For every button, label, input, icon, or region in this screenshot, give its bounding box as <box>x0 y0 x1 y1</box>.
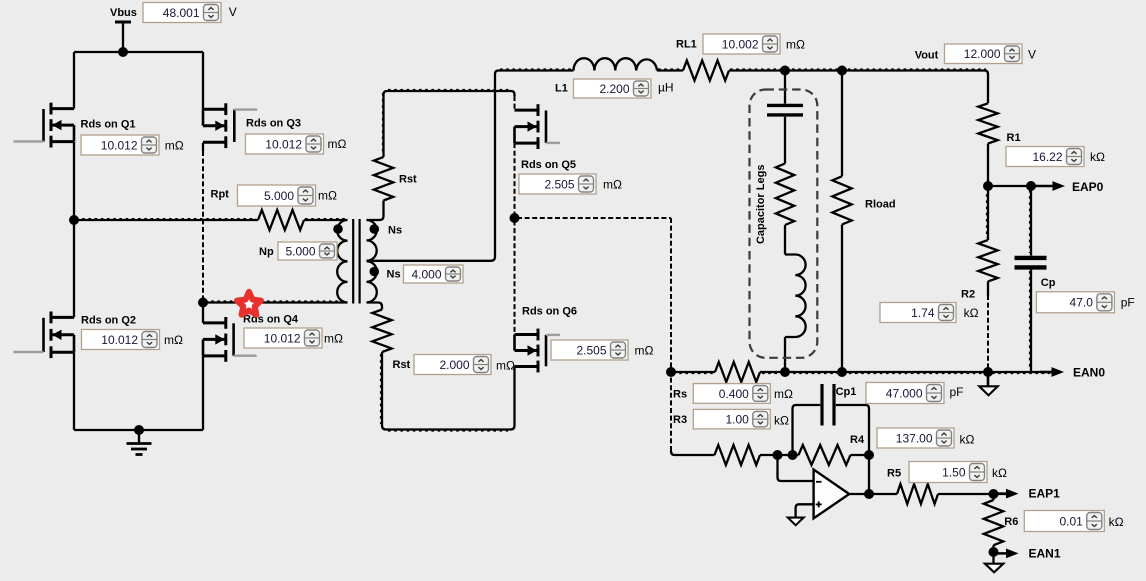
svg-text:kΩ: kΩ <box>960 433 975 447</box>
svg-text:5.000: 5.000 <box>285 244 315 258</box>
svg-text:L1: L1 <box>555 83 568 95</box>
svg-text:EAP0: EAP0 <box>1072 180 1104 194</box>
svg-text:mΩ: mΩ <box>165 139 184 153</box>
svg-text:Np: Np <box>259 246 274 258</box>
svg-text:12.000: 12.000 <box>964 47 1001 61</box>
svg-text:Capacitor Legs: Capacitor Legs <box>755 165 767 244</box>
svg-text:R2: R2 <box>961 289 975 301</box>
svg-text:mΩ: mΩ <box>324 332 343 346</box>
svg-text:kΩ: kΩ <box>1109 515 1124 529</box>
svg-text:mΩ: mΩ <box>328 137 347 151</box>
svg-text:Vout: Vout <box>915 50 939 62</box>
svg-text:2.000: 2.000 <box>439 358 469 372</box>
svg-text:EAP1: EAP1 <box>1029 487 1061 501</box>
svg-text:0.01: 0.01 <box>1059 514 1083 528</box>
svg-text:1.74: 1.74 <box>911 306 935 320</box>
svg-text:V: V <box>1028 48 1036 62</box>
svg-text:kΩ: kΩ <box>774 414 789 428</box>
svg-text:Rds on Q3: Rds on Q3 <box>246 118 301 130</box>
svg-text:mΩ: mΩ <box>603 178 622 192</box>
svg-text:R6: R6 <box>1004 516 1018 528</box>
svg-text:48.001: 48.001 <box>163 6 200 20</box>
svg-text:10.012: 10.012 <box>101 333 138 347</box>
svg-text:Cp1: Cp1 <box>836 386 857 398</box>
svg-text:10.012: 10.012 <box>101 138 138 152</box>
svg-text:V: V <box>229 5 237 19</box>
svg-text:kΩ: kΩ <box>964 306 979 320</box>
svg-text:1.00: 1.00 <box>725 412 749 426</box>
svg-text:2.200: 2.200 <box>599 82 629 96</box>
svg-text:47.0: 47.0 <box>1070 296 1094 310</box>
svg-text:Ns: Ns <box>387 269 401 281</box>
svg-text:4.000: 4.000 <box>411 267 441 281</box>
svg-text:0.400: 0.400 <box>719 387 749 401</box>
svg-text:16.22: 16.22 <box>1032 150 1062 164</box>
svg-text:2.505: 2.505 <box>576 343 606 357</box>
svg-text:Rds on Q2: Rds on Q2 <box>81 315 136 327</box>
svg-text:Vbus: Vbus <box>110 7 137 19</box>
svg-text:R5: R5 <box>887 468 901 480</box>
svg-text:mΩ: mΩ <box>774 387 793 401</box>
svg-text:mΩ: mΩ <box>318 189 337 203</box>
svg-text:Rds on Q1: Rds on Q1 <box>81 119 136 131</box>
svg-text:mΩ: mΩ <box>786 38 805 52</box>
svg-text:mΩ: mΩ <box>635 344 654 358</box>
svg-text:RL1: RL1 <box>676 39 697 51</box>
svg-text:EAN0: EAN0 <box>1073 366 1105 380</box>
svg-text:2.505: 2.505 <box>544 177 574 191</box>
svg-text:Rds on Q4: Rds on Q4 <box>243 314 299 326</box>
svg-text:10.012: 10.012 <box>265 137 302 151</box>
svg-text:1.50: 1.50 <box>942 465 966 479</box>
svg-text:Rpt: Rpt <box>211 188 230 200</box>
svg-text:pF: pF <box>950 385 964 399</box>
svg-text:10.012: 10.012 <box>264 331 301 345</box>
svg-text:47.000: 47.000 <box>886 386 923 400</box>
svg-text:kΩ: kΩ <box>992 466 1007 480</box>
svg-text:mΩ: mΩ <box>164 333 183 347</box>
svg-text:R3: R3 <box>673 414 687 426</box>
svg-text:R4: R4 <box>850 434 865 446</box>
svg-text:µH: µH <box>658 81 674 95</box>
svg-text:pF: pF <box>1121 296 1135 310</box>
svg-text:Rds on Q6: Rds on Q6 <box>522 306 577 318</box>
svg-text:10.002: 10.002 <box>722 37 759 51</box>
svg-text:Rs: Rs <box>673 389 687 401</box>
svg-text:Ns: Ns <box>388 225 402 237</box>
svg-text:EAN1: EAN1 <box>1029 547 1061 561</box>
svg-text:R1: R1 <box>1007 132 1021 144</box>
svg-text:5.000: 5.000 <box>264 189 294 203</box>
svg-text:kΩ: kΩ <box>1090 150 1105 164</box>
svg-text:137.00: 137.00 <box>896 431 933 445</box>
svg-text:Rst: Rst <box>393 359 411 371</box>
svg-text:mΩ: mΩ <box>496 359 515 373</box>
svg-text:Rds on Q5: Rds on Q5 <box>521 159 576 171</box>
svg-text:Rst: Rst <box>399 174 417 186</box>
svg-text:Rload: Rload <box>865 199 896 211</box>
svg-text:Cp: Cp <box>1041 277 1056 289</box>
